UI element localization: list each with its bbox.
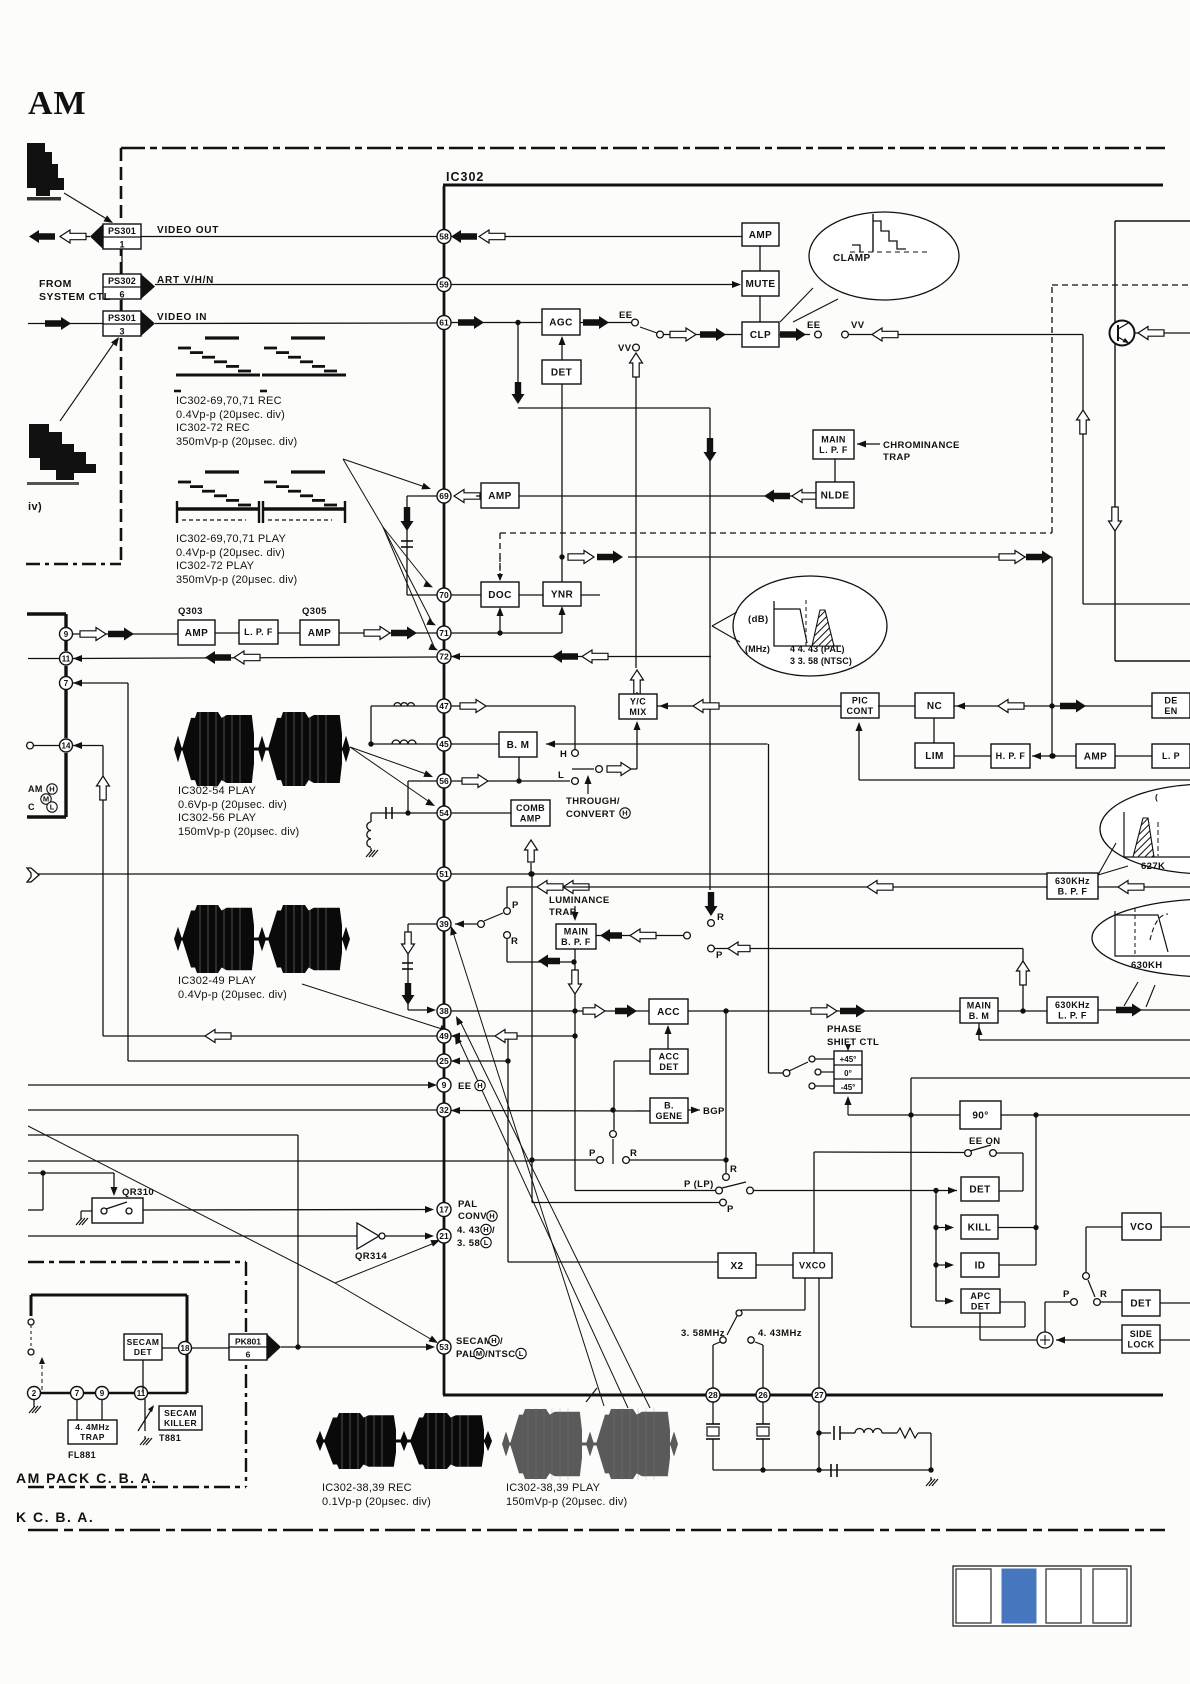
svg-text:H: H bbox=[560, 749, 567, 760]
svg-text:COMB: COMB bbox=[516, 803, 545, 813]
svg-text:PS301: PS301 bbox=[108, 226, 136, 236]
svg-text:630KHz: 630KHz bbox=[1055, 876, 1090, 886]
svg-text:AM PACK C. B. A.: AM PACK C. B. A. bbox=[16, 1470, 157, 1486]
svg-text:IC302-72 REC: IC302-72 REC bbox=[176, 422, 250, 434]
svg-text:DET: DET bbox=[1130, 1299, 1151, 1310]
svg-text:0.1Vp-p (20μsec. div): 0.1Vp-p (20μsec. div) bbox=[322, 1496, 431, 1508]
svg-text:AMP: AMP bbox=[488, 491, 511, 502]
svg-text:69: 69 bbox=[439, 491, 449, 501]
svg-text:R: R bbox=[630, 1148, 637, 1159]
svg-text:K C. B. A.: K C. B. A. bbox=[16, 1509, 94, 1525]
svg-text:4. 43MHz: 4. 43MHz bbox=[758, 1328, 802, 1339]
svg-text:AGC: AGC bbox=[549, 318, 572, 329]
svg-text:ID: ID bbox=[975, 1261, 986, 1272]
svg-text:NLDE: NLDE bbox=[821, 491, 850, 502]
svg-text:0.4Vp-p (20μsec. div): 0.4Vp-p (20μsec. div) bbox=[176, 547, 285, 559]
svg-text:KILLER: KILLER bbox=[164, 1418, 197, 1428]
svg-text:VCO: VCO bbox=[1130, 1222, 1153, 1233]
svg-text:MIX: MIX bbox=[629, 707, 646, 717]
svg-text:56: 56 bbox=[439, 776, 449, 786]
svg-text:PK801: PK801 bbox=[235, 1337, 261, 1347]
svg-text:LIM: LIM bbox=[925, 751, 943, 762]
svg-text:SECAM: SECAM bbox=[164, 1408, 197, 1418]
svg-text:47: 47 bbox=[439, 701, 449, 711]
svg-text:53: 53 bbox=[439, 1342, 449, 1352]
svg-text:H: H bbox=[489, 1212, 494, 1221]
svg-text:0.4Vp-p (20μsec. div): 0.4Vp-p (20μsec. div) bbox=[176, 409, 285, 421]
svg-text:R: R bbox=[1100, 1289, 1107, 1300]
svg-text:DOC: DOC bbox=[488, 590, 511, 601]
svg-text:L. P. F: L. P. F bbox=[244, 627, 273, 637]
svg-text:Q303: Q303 bbox=[178, 606, 203, 617]
svg-text:IC302-56 PLAY: IC302-56 PLAY bbox=[178, 812, 257, 824]
svg-text:P: P bbox=[727, 1204, 734, 1215]
svg-text:(dB): (dB) bbox=[748, 614, 769, 625]
svg-text:EE: EE bbox=[807, 320, 820, 331]
svg-text:Y/C: Y/C bbox=[630, 696, 646, 706]
svg-text:PAL: PAL bbox=[458, 1199, 478, 1210]
svg-text:APC: APC bbox=[970, 1291, 990, 1301]
svg-text:L: L bbox=[484, 1238, 489, 1247]
svg-text:SHIFT CTL: SHIFT CTL bbox=[827, 1037, 879, 1048]
svg-text:6: 6 bbox=[119, 290, 124, 300]
svg-text:90°: 90° bbox=[972, 1111, 988, 1122]
svg-text:150mVp-p (20μsec. div): 150mVp-p (20μsec. div) bbox=[178, 826, 299, 838]
svg-text:AMP: AMP bbox=[520, 813, 541, 823]
svg-text:EE ON: EE ON bbox=[969, 1136, 1001, 1147]
svg-text:54: 54 bbox=[439, 808, 449, 818]
svg-text:iv): iv) bbox=[28, 501, 42, 513]
svg-text:B. M: B. M bbox=[969, 1011, 990, 1021]
svg-text:VXCO: VXCO bbox=[799, 1261, 826, 1271]
svg-text:32: 32 bbox=[439, 1105, 449, 1115]
svg-text:KILL: KILL bbox=[968, 1223, 992, 1234]
svg-text:SYSTEM CTL: SYSTEM CTL bbox=[39, 291, 111, 303]
svg-text:9: 9 bbox=[100, 1389, 105, 1398]
svg-text:3. 58: 3. 58 bbox=[457, 1238, 480, 1249]
svg-text:L: L bbox=[519, 1349, 524, 1358]
svg-text:P: P bbox=[1063, 1289, 1070, 1300]
svg-text:C: C bbox=[28, 802, 35, 812]
svg-text:3. 58MHz: 3. 58MHz bbox=[681, 1328, 725, 1339]
svg-text:PAL: PAL bbox=[456, 1349, 476, 1360]
svg-text:0°: 0° bbox=[844, 1069, 852, 1078]
svg-text:7: 7 bbox=[75, 1389, 80, 1398]
svg-text:11: 11 bbox=[62, 654, 71, 663]
svg-text:DET: DET bbox=[971, 1301, 990, 1311]
svg-text:45: 45 bbox=[439, 739, 449, 749]
svg-text:70: 70 bbox=[439, 590, 449, 600]
svg-text:7: 7 bbox=[64, 679, 69, 688]
svg-text:3 3. 58 (NTSC): 3 3. 58 (NTSC) bbox=[790, 656, 852, 666]
svg-text:DET: DET bbox=[551, 368, 572, 379]
svg-text:Q305: Q305 bbox=[302, 606, 327, 617]
svg-text:11: 11 bbox=[137, 1389, 146, 1398]
svg-text:CONV.: CONV. bbox=[458, 1211, 489, 1222]
svg-text:AMP: AMP bbox=[749, 230, 772, 241]
svg-text:61: 61 bbox=[439, 318, 449, 328]
svg-text:/: / bbox=[500, 1336, 503, 1347]
svg-text:TRAP: TRAP bbox=[80, 1432, 105, 1442]
svg-text:28: 28 bbox=[708, 1390, 718, 1400]
svg-text:VIDEO OUT: VIDEO OUT bbox=[157, 225, 219, 236]
svg-text:DE: DE bbox=[1164, 695, 1177, 705]
svg-text:L: L bbox=[50, 803, 55, 812]
svg-text:R: R bbox=[717, 912, 724, 923]
svg-text:H: H bbox=[49, 785, 54, 794]
svg-text:27: 27 bbox=[814, 1390, 824, 1400]
svg-text:AM: AM bbox=[28, 784, 43, 794]
svg-text:ACC: ACC bbox=[657, 1007, 680, 1018]
svg-text:H. P. F: H. P. F bbox=[996, 751, 1026, 761]
svg-text:EN: EN bbox=[1164, 706, 1177, 716]
svg-text:H: H bbox=[477, 1081, 482, 1090]
svg-text:P (LP): P (LP) bbox=[684, 1179, 714, 1190]
svg-text:IC302-69,70,71 REC: IC302-69,70,71 REC bbox=[176, 395, 282, 407]
svg-text:VV: VV bbox=[851, 320, 865, 331]
svg-text:DET: DET bbox=[134, 1347, 153, 1357]
svg-text:4 4. 43 (PAL): 4 4. 43 (PAL) bbox=[790, 644, 845, 654]
svg-text:B.: B. bbox=[664, 1100, 674, 1110]
svg-text:P: P bbox=[589, 1148, 596, 1159]
svg-text:IC302-38,39 PLAY: IC302-38,39 PLAY bbox=[506, 1482, 601, 1494]
svg-text:350mVp-p (20μsec. div): 350mVp-p (20μsec. div) bbox=[176, 436, 297, 448]
svg-text:LOCK: LOCK bbox=[1127, 1339, 1154, 1349]
svg-text:DET: DET bbox=[659, 1062, 678, 1072]
svg-text:EE: EE bbox=[458, 1081, 471, 1092]
svg-text:SECAM: SECAM bbox=[456, 1336, 492, 1347]
svg-text:EE: EE bbox=[619, 310, 632, 321]
svg-text:PIC: PIC bbox=[852, 695, 868, 705]
svg-text:ACC: ACC bbox=[659, 1051, 680, 1061]
svg-text:PHASE: PHASE bbox=[827, 1024, 862, 1035]
svg-text:THROUGH/: THROUGH/ bbox=[566, 796, 620, 807]
svg-text:71: 71 bbox=[439, 628, 449, 638]
svg-text:MAIN: MAIN bbox=[564, 926, 589, 936]
svg-text:IC302-49 PLAY: IC302-49 PLAY bbox=[178, 975, 257, 987]
svg-text:39: 39 bbox=[439, 919, 449, 929]
svg-text:AMP: AMP bbox=[185, 628, 208, 639]
svg-text:VV: VV bbox=[618, 343, 632, 354]
svg-text:9: 9 bbox=[64, 630, 69, 639]
svg-text:IC302-72 PLAY: IC302-72 PLAY bbox=[176, 560, 255, 572]
svg-text:H: H bbox=[491, 1336, 496, 1345]
svg-text:QR314: QR314 bbox=[355, 1251, 387, 1262]
svg-text:-45°: -45° bbox=[841, 1083, 856, 1092]
svg-text:SIDE: SIDE bbox=[1130, 1329, 1153, 1339]
svg-text:L. P. F: L. P. F bbox=[819, 445, 848, 455]
svg-text:/: / bbox=[492, 1225, 495, 1236]
svg-text:YNR: YNR bbox=[551, 590, 574, 601]
svg-text:MUTE: MUTE bbox=[746, 279, 776, 290]
svg-text:CLP: CLP bbox=[750, 330, 771, 341]
svg-text:TRAP: TRAP bbox=[883, 452, 911, 463]
svg-text:59: 59 bbox=[439, 280, 449, 290]
svg-text:MAIN: MAIN bbox=[821, 434, 846, 444]
svg-text:58: 58 bbox=[439, 232, 449, 242]
svg-text:M: M bbox=[476, 1349, 482, 1358]
svg-text:R: R bbox=[730, 1164, 737, 1175]
svg-text:CONVERT: CONVERT bbox=[566, 809, 615, 820]
svg-text:MAIN: MAIN bbox=[967, 1000, 992, 1010]
svg-text:IC302-69,70,71 PLAY: IC302-69,70,71 PLAY bbox=[176, 533, 286, 545]
svg-text:VIDEO IN: VIDEO IN bbox=[157, 312, 207, 323]
svg-text:FROM: FROM bbox=[39, 278, 72, 290]
svg-text:/NTSC: /NTSC bbox=[485, 1349, 516, 1360]
svg-text:P: P bbox=[716, 950, 723, 961]
svg-text:18: 18 bbox=[181, 1344, 190, 1353]
svg-text:14: 14 bbox=[62, 741, 71, 750]
svg-text:(MHz): (MHz) bbox=[745, 644, 770, 654]
svg-text:P: P bbox=[512, 900, 519, 911]
svg-text:H: H bbox=[483, 1225, 488, 1234]
svg-text:IC302: IC302 bbox=[446, 170, 484, 184]
svg-text:FL881: FL881 bbox=[68, 1450, 96, 1460]
svg-text:X2: X2 bbox=[730, 1261, 743, 1272]
svg-text:IC302-38,39 REC: IC302-38,39 REC bbox=[322, 1482, 412, 1494]
svg-text:QR310: QR310 bbox=[122, 1187, 154, 1198]
svg-text:R: R bbox=[511, 936, 518, 947]
svg-text:1: 1 bbox=[119, 240, 124, 250]
svg-text:49: 49 bbox=[439, 1031, 449, 1041]
svg-text:T881: T881 bbox=[159, 1433, 181, 1443]
svg-text:M: M bbox=[43, 795, 49, 804]
svg-text:CLAMP: CLAMP bbox=[833, 253, 871, 264]
svg-text:4. 43: 4. 43 bbox=[457, 1225, 480, 1236]
svg-text:L. P. F: L. P. F bbox=[1058, 1010, 1087, 1020]
svg-text:BGP: BGP bbox=[703, 1106, 725, 1117]
svg-text:26: 26 bbox=[758, 1390, 768, 1400]
svg-text:72: 72 bbox=[439, 652, 449, 662]
svg-text:PS302: PS302 bbox=[108, 276, 136, 286]
svg-text:(: ( bbox=[1155, 792, 1158, 802]
svg-text:CONT: CONT bbox=[846, 706, 873, 716]
svg-text:150mVp-p (20μsec. div): 150mVp-p (20μsec. div) bbox=[506, 1496, 627, 1508]
svg-text:AMP: AMP bbox=[1084, 752, 1107, 763]
svg-text:B. P. F: B. P. F bbox=[561, 937, 591, 947]
svg-text:21: 21 bbox=[439, 1231, 449, 1241]
svg-text:9: 9 bbox=[442, 1080, 447, 1090]
svg-text:NC: NC bbox=[927, 701, 942, 712]
svg-text:B. P. F: B. P. F bbox=[1058, 886, 1088, 896]
svg-text:4. 4MHz: 4. 4MHz bbox=[75, 1422, 109, 1432]
svg-text:38: 38 bbox=[439, 1006, 449, 1016]
svg-text:AMP: AMP bbox=[308, 628, 331, 639]
svg-text:25: 25 bbox=[439, 1056, 449, 1066]
svg-text:DET: DET bbox=[969, 1185, 990, 1196]
svg-text:CHROMINANCE: CHROMINANCE bbox=[883, 440, 960, 451]
svg-text:17: 17 bbox=[439, 1205, 449, 1215]
svg-text:B. M: B. M bbox=[507, 740, 530, 751]
svg-text:630KH: 630KH bbox=[1131, 960, 1163, 971]
svg-text:L: L bbox=[558, 770, 564, 781]
svg-text:627K: 627K bbox=[1141, 861, 1165, 872]
svg-text:IC302-54 PLAY: IC302-54 PLAY bbox=[178, 785, 257, 797]
svg-text:630KHz: 630KHz bbox=[1055, 1000, 1090, 1010]
svg-text:0.6Vp-p (20μsec. div): 0.6Vp-p (20μsec. div) bbox=[178, 799, 287, 811]
svg-text:GENE: GENE bbox=[655, 1111, 682, 1121]
svg-text:AM: AM bbox=[28, 85, 87, 122]
svg-text:51: 51 bbox=[439, 869, 449, 879]
svg-text:L. P: L. P bbox=[1162, 751, 1180, 761]
svg-text:SECAM: SECAM bbox=[127, 1337, 160, 1347]
svg-text:0.4Vp-p (20μsec. div): 0.4Vp-p (20μsec. div) bbox=[178, 989, 287, 1001]
svg-text:H: H bbox=[622, 809, 627, 818]
svg-text:PS301: PS301 bbox=[108, 313, 136, 323]
svg-text:2: 2 bbox=[32, 1389, 37, 1398]
svg-text:350mVp-p (20μsec. div): 350mVp-p (20μsec. div) bbox=[176, 574, 297, 586]
svg-text:LUMINANCE: LUMINANCE bbox=[549, 895, 610, 906]
svg-text:6: 6 bbox=[246, 1350, 251, 1360]
svg-text:3: 3 bbox=[119, 327, 124, 337]
svg-text:+45°: +45° bbox=[840, 1055, 857, 1064]
